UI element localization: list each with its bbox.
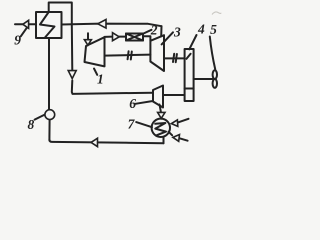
svg-text:3: 3 — [173, 24, 181, 39]
svg-text:1: 1 — [97, 72, 104, 87]
svg-text:4: 4 — [197, 22, 205, 37]
svg-text:2: 2 — [150, 22, 158, 37]
svg-text:9: 9 — [14, 32, 21, 47]
svg-text:5: 5 — [210, 22, 217, 37]
svg-text:6: 6 — [129, 96, 136, 111]
svg-text:8: 8 — [28, 117, 35, 132]
